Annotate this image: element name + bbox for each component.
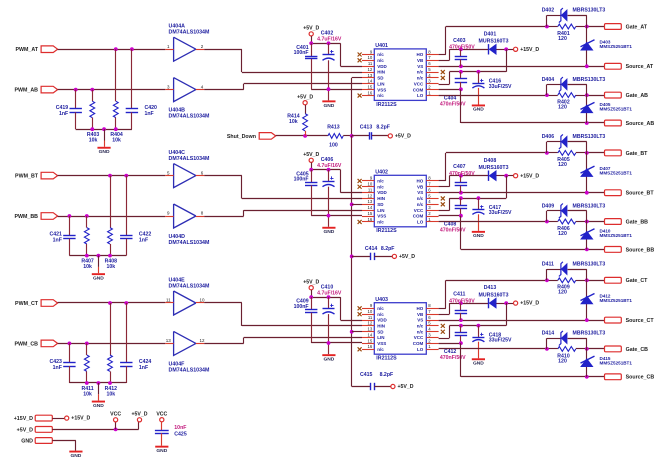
svg-text:10k: 10k: [112, 137, 121, 143]
diode D408 MURS160T3: [488, 171, 490, 181]
svg-text:C425: C425: [174, 432, 187, 438]
svg-text:100: 100: [329, 143, 338, 149]
pin 10 n/c: [362, 186, 374, 188]
capacitor C401 100nF: [311, 43, 313, 56]
wire RC stems to rail: [75, 112, 77, 129]
svg-text:n/c: n/c: [417, 196, 424, 201]
pin 5 stub: [165, 175, 173, 177]
svg-text:n/c: n/c: [377, 306, 384, 311]
pin 5 n/c: [426, 198, 438, 200]
pin 10 n/c: [362, 314, 374, 316]
power +15V_D: [514, 47, 518, 51]
wire source bottom: [460, 343, 462, 377]
port Gate_BB: [605, 219, 622, 225]
pin 3 stub: [165, 89, 173, 91]
capacitor C414 8.2pF: [352, 256, 371, 258]
svg-text:C403: C403: [453, 38, 466, 44]
pin 10 n/c: [362, 60, 374, 62]
svg-text:4.7uF/16V: 4.7uF/16V: [317, 163, 342, 169]
svg-text:+5V_D: +5V_D: [303, 25, 319, 31]
port Source_AB: [605, 120, 622, 126]
wire RC stems to rail: [69, 239, 71, 256]
svg-text:10k: 10k: [83, 264, 92, 270]
svg-text:n/c: n/c: [377, 52, 384, 57]
svg-text:11: 11: [368, 315, 373, 320]
svg-text:120: 120: [558, 358, 567, 364]
pin 16 n/c: [362, 95, 374, 97]
svg-text:100nF: 100nF: [294, 176, 309, 182]
wire VSS rail: [311, 215, 362, 217]
svg-text:470nF/50V: 470nF/50V: [449, 171, 475, 177]
power +5V_D: [309, 158, 313, 162]
svg-text:GND: GND: [156, 448, 167, 454]
svg-text:LIN: LIN: [377, 81, 384, 86]
svg-text:VSS: VSS: [377, 87, 386, 92]
svg-text:IR2112S: IR2112S: [376, 228, 397, 234]
svg-text:470nF/50V: 470nF/50V: [440, 355, 466, 361]
resistor R410 120: [558, 347, 576, 352]
svg-text:Source_AB: Source_AB: [626, 121, 655, 127]
diode D401 MURS160T3: [488, 44, 490, 54]
svg-text:D408: D408: [484, 158, 497, 164]
wire C423 drop: [69, 343, 71, 362]
svg-text:120: 120: [558, 290, 567, 296]
wire source bottom: [460, 216, 462, 250]
capacitor C409 100nF: [311, 297, 313, 310]
power VCC corner: [114, 418, 118, 422]
resistor R412 10k: [108, 355, 113, 371]
svg-text:+15V_D: +15V_D: [71, 416, 90, 422]
svg-text:MBRS130LT3: MBRS130LT3: [573, 8, 606, 14]
wire PWM_BB to buffer: [58, 216, 166, 218]
svg-text:VCC: VCC: [414, 81, 424, 86]
svg-text:12: 12: [368, 67, 373, 72]
power +5V_D R414: [303, 101, 307, 105]
svg-text:C414: C414: [365, 246, 378, 252]
wire gate line to port: [587, 152, 605, 154]
svg-text:n/c: n/c: [377, 179, 384, 184]
svg-text:100nF: 100nF: [294, 304, 309, 310]
pin 1 LO: [426, 349, 438, 351]
svg-text:VB: VB: [417, 312, 424, 317]
svg-text:120: 120: [558, 105, 567, 111]
svg-text:10k: 10k: [89, 137, 98, 143]
pin 9 n/c: [362, 54, 374, 56]
svg-text:Shut_Down: Shut_Down: [227, 134, 256, 140]
wire +15V_D port: [52, 418, 64, 420]
pin 8 stub: [196, 216, 204, 218]
resistor R404 10k: [113, 101, 118, 117]
ground port: [69, 451, 82, 453]
pin 1 stub: [165, 49, 173, 51]
capacitor C425 10nF: [161, 422, 163, 431]
svg-text:SD: SD: [377, 329, 384, 334]
svg-text:13: 13: [368, 73, 373, 78]
svg-text:C407: C407: [453, 164, 466, 170]
pin 16 n/c: [362, 221, 374, 223]
pin 14 LIN: [362, 210, 374, 212]
pin 1 LO: [426, 95, 438, 97]
ground bulk cap: [472, 105, 485, 107]
svg-text:11: 11: [368, 187, 373, 192]
svg-text:13: 13: [368, 327, 373, 332]
svg-text:16: 16: [368, 217, 373, 222]
resistor R406 120: [558, 219, 576, 224]
capacitor C417 33uF/25V: [478, 198, 480, 210]
svg-text:U401: U401: [375, 43, 388, 49]
svg-text:PWM_BT: PWM_BT: [15, 174, 39, 180]
svg-text:VSS: VSS: [377, 214, 386, 219]
pin 15 VSS: [362, 343, 374, 345]
svg-text:VSS: VSS: [377, 341, 386, 346]
svg-text:1nF: 1nF: [53, 365, 62, 371]
svg-text:VDD: VDD: [377, 318, 387, 323]
pin 14 LIN: [362, 337, 374, 339]
pin 16 n/c: [362, 349, 374, 351]
zener D407 MMSZ5251BT1: [586, 153, 588, 193]
svg-text:MMSZ5251BT1: MMSZ5251BT1: [600, 170, 633, 175]
svg-text:MMSZ5251BT1: MMSZ5251BT1: [600, 107, 633, 112]
svg-text:SD: SD: [377, 76, 384, 81]
wire +5V_D port: [52, 429, 138, 431]
power +5V_D C413: [388, 134, 392, 138]
svg-text:Source_BB: Source_BB: [626, 247, 655, 253]
buffer U404C DM74ALS1034M: [174, 164, 196, 188]
svg-text:PWM_AT: PWM_AT: [15, 47, 38, 53]
svg-text:D411: D411: [542, 261, 554, 267]
wire PWM_CT to buffer: [58, 302, 166, 304]
buffer U404D DM74ALS1034M: [174, 204, 196, 228]
pin 2 stub: [196, 49, 204, 51]
ground +5V group: [322, 354, 335, 356]
svg-text:DM74ALS1034M: DM74ALS1034M: [169, 114, 211, 120]
svg-text:100nF: 100nF: [294, 50, 309, 56]
svg-text:GND: GND: [70, 453, 81, 459]
capacitor C405 100nF: [311, 170, 313, 183]
svg-text:33uF/25V: 33uF/25V: [489, 210, 512, 216]
pin 11 VDD: [362, 66, 374, 68]
svg-text:MURS160T3: MURS160T3: [479, 292, 509, 298]
IC U403 IR2112S: [374, 303, 426, 355]
diode D409 MBRS130LT3: [546, 211, 548, 222]
pin 6 VS: [426, 320, 438, 322]
IC U402 IR2112S: [374, 175, 426, 227]
capacitor C407 470nF/50V: [460, 176, 462, 183]
ground C425: [155, 446, 168, 448]
capacitor C413 8.2pF: [352, 135, 369, 137]
wire VSS rail: [311, 89, 362, 91]
svg-text:C415: C415: [360, 372, 373, 378]
svg-text:GND: GND: [323, 229, 334, 235]
svg-text:SD: SD: [377, 202, 384, 207]
svg-text:n/c: n/c: [377, 220, 384, 225]
svg-text:15: 15: [368, 338, 373, 343]
svg-text:n/c: n/c: [377, 93, 384, 98]
svg-text:14: 14: [368, 79, 373, 84]
svg-text:+5V_D: +5V_D: [17, 427, 34, 433]
wire C420 drop: [131, 49, 133, 109]
wire RC stems to rail: [69, 366, 71, 383]
svg-text:VS: VS: [417, 318, 423, 323]
pin 3 VCC: [426, 337, 438, 339]
power +5V_D C414: [392, 254, 396, 258]
zener D403 MMSZ5251BT1: [586, 27, 588, 67]
svg-text:120: 120: [558, 36, 567, 42]
pin 15 VSS: [362, 216, 374, 218]
wire VDD: [340, 170, 342, 193]
port Source_CB: [605, 374, 622, 380]
port Gate_CB: [605, 346, 622, 352]
svg-text:33uF/25V: 33uF/25V: [489, 338, 512, 344]
wire VS source line: [439, 192, 605, 194]
pin 8 HO: [426, 54, 438, 56]
svg-text:11: 11: [368, 61, 373, 66]
svg-text:DM74ALS1034M: DM74ALS1034M: [169, 240, 211, 246]
svg-text:D402: D402: [542, 8, 555, 14]
wire +15V rail: [506, 303, 508, 326]
svg-text:HIN: HIN: [377, 196, 385, 201]
power +15V_D: [514, 174, 518, 178]
svg-text:470nF/50V: 470nF/50V: [440, 101, 466, 107]
svg-text:10: 10: [368, 55, 373, 60]
wire VS source line: [439, 66, 605, 68]
svg-text:GND: GND: [21, 438, 33, 444]
wire +15V rail: [506, 49, 508, 72]
wire R403 drop: [92, 90, 94, 102]
svg-text:D409: D409: [542, 203, 555, 209]
resistor R408 10k: [108, 228, 113, 244]
svg-text:PWM_CT: PWM_CT: [15, 301, 39, 307]
port Gate_BT: [605, 150, 622, 156]
wire gate line to port: [587, 26, 605, 28]
svg-text:HO: HO: [417, 306, 424, 311]
svg-text:DM74ALS1034M: DM74ALS1034M: [169, 156, 211, 162]
wire R404 drop: [115, 49, 117, 101]
svg-text:IR2112S: IR2112S: [376, 356, 397, 362]
svg-text:GND: GND: [323, 103, 334, 109]
wire +5V rail: [311, 290, 313, 297]
wire buffer out to HIN: [204, 175, 242, 177]
buffer U404F DM74ALS1034M: [174, 331, 196, 355]
svg-text:PWM_BB: PWM_BB: [14, 214, 38, 220]
svg-text:COM: COM: [413, 341, 424, 346]
pin 7 VB: [426, 60, 438, 62]
svg-text:8.2pF: 8.2pF: [376, 124, 390, 130]
svg-text:n/c: n/c: [417, 70, 424, 75]
resistor R405 120: [547, 152, 558, 154]
svg-text:n/c: n/c: [377, 184, 384, 189]
pin 13 SD: [362, 77, 374, 79]
resistor R401 120: [547, 26, 558, 28]
wire R413 to SD bus node: [343, 135, 352, 137]
wire R412 drop: [110, 303, 112, 355]
svg-text:10: 10: [368, 309, 373, 314]
power +15V_D: [514, 301, 518, 305]
svg-text:MBRS130LT3: MBRS130LT3: [573, 331, 606, 337]
svg-text:12: 12: [368, 321, 373, 326]
svg-text:HIN: HIN: [377, 70, 385, 75]
svg-text:VDD: VDD: [377, 64, 387, 69]
zener D410 MMSZ5251BT1: [586, 222, 588, 250]
svg-text:n/c: n/c: [417, 324, 424, 329]
pin 9 n/c: [362, 308, 374, 310]
svg-text:13: 13: [368, 199, 373, 204]
svg-text:COM: COM: [413, 214, 424, 219]
svg-text:Source_AT: Source_AT: [626, 64, 654, 70]
pin 12 stub: [196, 343, 204, 345]
svg-text:GND: GND: [473, 360, 484, 366]
pin 7 VB: [426, 314, 438, 316]
wire PWM_CB to buffer: [58, 343, 166, 345]
resistor R414 10k: [305, 105, 307, 114]
svg-text:MMSZ5251BT1: MMSZ5251BT1: [600, 298, 633, 303]
svg-text:+15V_D: +15V_D: [520, 173, 539, 179]
power +15V_D corner: [65, 416, 69, 420]
svg-text:10: 10: [199, 298, 205, 303]
svg-text:VS: VS: [417, 64, 423, 69]
wire C419 drop: [75, 90, 77, 109]
capacitor C422 1nF: [120, 235, 132, 237]
svg-text:DM74ALS1034M: DM74ALS1034M: [169, 283, 211, 289]
resistor R413 100: [328, 134, 343, 139]
svg-text:Source_CT: Source_CT: [626, 318, 655, 324]
capacitor C403 470nF/50V: [460, 49, 462, 56]
capacitor C415 8.2pF: [352, 386, 371, 388]
svg-text:GND: GND: [93, 403, 104, 409]
wire PWM_AB to buffer: [58, 89, 166, 91]
wire buffer out to LIN: [204, 343, 244, 345]
svg-text:MBRS130LT3: MBRS130LT3: [573, 261, 606, 267]
svg-text:HO: HO: [417, 52, 424, 57]
svg-text:+5V_D: +5V_D: [398, 384, 414, 390]
power +5V_D corner: [137, 418, 141, 422]
svg-text:GND: GND: [473, 107, 484, 113]
wire C422 drop: [126, 176, 128, 236]
ground +5V group: [322, 227, 335, 229]
svg-text:12: 12: [368, 193, 373, 198]
power +5V_D: [309, 286, 313, 290]
pin 9 n/c: [362, 180, 374, 182]
svg-text:Gate_BB: Gate_BB: [626, 219, 649, 225]
wire VB to bootstrap: [439, 60, 450, 62]
pin 14 LIN: [362, 83, 374, 85]
svg-text:DM74ALS1034M: DM74ALS1034M: [169, 368, 211, 374]
svg-text:+15V_D: +15V_D: [520, 47, 539, 53]
svg-text:16: 16: [368, 344, 373, 349]
wire gate line to port: [587, 280, 605, 282]
wire R408 drop: [110, 176, 112, 228]
capacitor C419 1nF: [70, 108, 82, 110]
wire PWM_BT to buffer: [58, 175, 166, 177]
wire +5V rail: [311, 36, 313, 43]
capacitor C424 1nF: [120, 362, 132, 364]
svg-text:1nF: 1nF: [139, 237, 148, 243]
wire VSS rail: [311, 342, 362, 344]
wire buffer out to LIN: [204, 216, 244, 218]
svg-text:GND: GND: [323, 357, 334, 363]
svg-text:10: 10: [368, 182, 373, 187]
port Source_CT: [605, 317, 622, 323]
pin 11 stub: [165, 302, 173, 304]
svg-text:n/c: n/c: [417, 329, 424, 334]
capacitor C416 33uF/25V: [478, 72, 480, 84]
pin 8 HO: [426, 308, 438, 310]
svg-text:MMSZ5251BT1: MMSZ5251BT1: [600, 44, 633, 49]
svg-text:MBRS130LT3: MBRS130LT3: [573, 77, 606, 83]
wire VS source line: [439, 320, 605, 322]
pin 9 stub: [165, 216, 173, 218]
svg-text:n/c: n/c: [417, 202, 424, 207]
wire COM: [439, 343, 461, 345]
pin 13 SD: [362, 204, 374, 206]
port Source_BT: [605, 190, 622, 196]
svg-text:10k: 10k: [106, 391, 115, 397]
svg-text:D404: D404: [542, 77, 555, 83]
wire C421 drop: [69, 216, 71, 235]
ground +5V group: [322, 100, 335, 102]
diode D413 MURS160T3: [488, 298, 490, 308]
svg-text:VCC: VCC: [414, 335, 424, 340]
svg-text:VS: VS: [417, 190, 423, 195]
svg-text:16: 16: [368, 90, 373, 95]
pin 11 VDD: [362, 192, 374, 194]
wire SD U403: [352, 331, 362, 333]
pin 7 VB: [426, 186, 438, 188]
svg-text:13: 13: [166, 338, 172, 343]
zener D415 MMSZ5251BT1: [586, 349, 588, 377]
wire Shut_Down line: [276, 135, 328, 137]
svg-text:n/c: n/c: [377, 58, 384, 63]
pin 3 VCC: [426, 210, 438, 212]
svg-text:10k: 10k: [106, 264, 115, 270]
diode D404 MBRS130LT3: [546, 84, 548, 95]
resistor R409 120: [547, 280, 558, 282]
svg-text:Gate_BT: Gate_BT: [626, 151, 649, 157]
capacitor C412 470nF/50V: [460, 326, 462, 333]
wire buffer out to HIN: [204, 49, 242, 51]
wire LO gate line: [439, 221, 547, 223]
svg-text:PWM_AB: PWM_AB: [14, 88, 38, 94]
capacitor C420 1nF: [126, 108, 138, 110]
svg-text:HO: HO: [417, 179, 424, 184]
svg-text:MBRS130LT3: MBRS130LT3: [573, 134, 606, 140]
zener D405 MMSZ5251BT1: [586, 95, 588, 123]
svg-text:U403: U403: [375, 297, 388, 303]
svg-text:MMSZ5251BT1: MMSZ5251BT1: [600, 360, 633, 365]
wire HO to gate line: [439, 180, 446, 182]
svg-text:PWM_CB: PWM_CB: [14, 341, 38, 347]
svg-text:LIN: LIN: [377, 208, 384, 213]
wire VDD: [340, 297, 342, 320]
port Source_BB: [605, 247, 622, 253]
wire source bottom: [460, 89, 462, 123]
svg-text:MURS160T3: MURS160T3: [479, 165, 509, 171]
pin 4 stub: [196, 89, 204, 91]
pin 2 COM: [426, 216, 438, 218]
ground RC network: [104, 129, 106, 140]
svg-text:+5V_D: +5V_D: [303, 279, 319, 285]
svg-text:IR2112S: IR2112S: [376, 102, 397, 108]
svg-text:10k: 10k: [83, 391, 92, 397]
svg-text:n/c: n/c: [377, 312, 384, 317]
svg-text:1nF: 1nF: [53, 237, 62, 243]
resistor R402 120: [558, 93, 576, 98]
port Gate_CT: [605, 277, 622, 283]
svg-text:Gate_CB: Gate_CB: [626, 347, 649, 353]
svg-text:MBRS130LT3: MBRS130LT3: [573, 203, 606, 209]
port Source_AT: [605, 63, 622, 69]
pin 12 HIN: [362, 325, 374, 327]
